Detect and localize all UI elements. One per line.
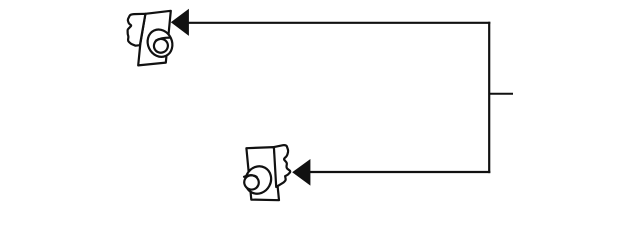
part 2 lens barrel outer rim xyxy=(241,162,276,199)
part 1: sensor unit (top-left) xyxy=(128,11,177,66)
part 2: sensor unit (bottom, mirrored) xyxy=(241,145,291,200)
part 2 lens barrel seam xyxy=(244,175,257,177)
leader line from bracket to part 2 arrow xyxy=(310,171,491,173)
part 2 bracket plate xyxy=(246,147,279,200)
part 1 lens barrel seam xyxy=(156,38,170,41)
arrow to part 2 xyxy=(292,159,310,186)
bracket vertical line xyxy=(488,22,490,173)
part 1 bracket plate xyxy=(138,11,171,66)
leader line from part 1 arrow to bracket xyxy=(188,22,491,24)
part 1 lens barrel outer rim xyxy=(143,25,177,61)
part 1 rubber grommet (left bumpy lobe) xyxy=(128,14,146,46)
part 1 lens front face xyxy=(152,37,171,55)
arrow to part 1 xyxy=(171,9,189,36)
part 2 lens front face xyxy=(242,173,261,192)
bracket stub line xyxy=(489,93,513,95)
part 2 rubber grommet (right bumpy lobe) xyxy=(274,145,290,187)
